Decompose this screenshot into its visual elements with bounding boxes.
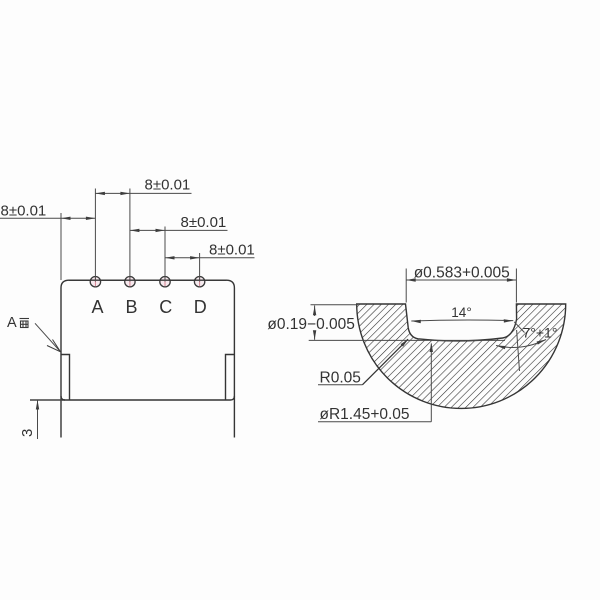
dimension 8±0.01 (C to D) xyxy=(165,257,255,259)
extension line body left edge xyxy=(60,213,62,280)
hole A xyxy=(90,277,100,287)
short leader from 7°+1° text to wall xyxy=(514,322,524,333)
svg-text:7°+1°: 7°+1° xyxy=(523,325,558,341)
body top edge over holes xyxy=(69,279,226,281)
svg-text:8±0.01: 8±0.01 xyxy=(209,242,255,259)
leader arrow to surface A xyxy=(35,323,60,350)
hand-drawn 面 glyph xyxy=(20,319,30,328)
svg-text:øR1.45+0.05: øR1.45+0.05 xyxy=(320,406,410,423)
dimension 8±0.01 (left edge to A) xyxy=(0,217,95,219)
svg-text:C: C xyxy=(159,297,172,317)
hole C xyxy=(160,277,170,287)
svg-text:R0.05: R0.05 xyxy=(320,370,361,387)
svg-text:3: 3 xyxy=(19,429,36,437)
extension line hole D xyxy=(199,253,201,282)
svg-text:A: A xyxy=(7,315,17,331)
extension line groove bottom xyxy=(309,339,505,341)
dimension 8±0.01 (B to C) xyxy=(130,229,228,231)
extension line hole A xyxy=(94,189,96,282)
svg-text:D: D xyxy=(194,297,207,317)
body bottom edge xyxy=(30,396,234,400)
left notch xyxy=(61,355,70,401)
right notch xyxy=(226,355,235,401)
svg-text:ø0.19−0.005: ø0.19−0.005 xyxy=(267,316,354,333)
extension lines for ⌀0.583 xyxy=(405,269,407,303)
svg-text:8±0.01: 8±0.01 xyxy=(145,177,191,194)
extension line top surface xyxy=(311,304,357,306)
svg-text:8±0.01: 8±0.01 xyxy=(181,214,227,231)
right wall extension line (7° dim) xyxy=(517,330,520,371)
dimension 3 (bottom left) xyxy=(30,399,62,401)
sectional half-disc body with hatching xyxy=(357,304,566,408)
svg-text:A: A xyxy=(91,297,103,317)
svg-text:ø0.583+0.005: ø0.583+0.005 xyxy=(414,265,510,282)
hole D xyxy=(194,277,204,287)
angular arc 7°+1° xyxy=(496,340,546,348)
body outline (left view) xyxy=(61,280,234,437)
dimension 8±0.01 (A to B) xyxy=(95,192,191,194)
hole B xyxy=(125,277,135,287)
dimension ⌀0.19−0.005 xyxy=(314,306,316,317)
dimension 14° xyxy=(411,320,513,321)
extension line hole C xyxy=(164,227,166,282)
svg-text:14°: 14° xyxy=(451,305,471,320)
svg-text:B: B xyxy=(125,297,137,317)
svg-text:8±0.01: 8±0.01 xyxy=(1,203,47,220)
dimension ⌀0.583+0.005 xyxy=(406,279,516,281)
extension line hole B xyxy=(129,189,131,282)
